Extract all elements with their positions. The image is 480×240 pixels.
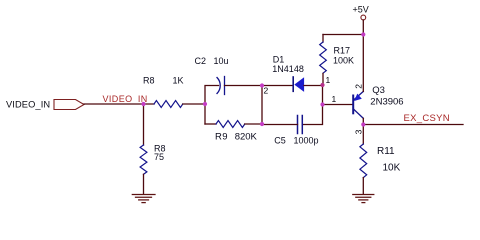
- wire loop left vertical: [205, 86, 219, 105]
- wire R11 to ground: [362, 178, 364, 194]
- ground (under R8 75): [132, 195, 155, 203]
- resistor R17 100K: [320, 35, 354, 86]
- svg-text:C2: C2: [195, 56, 207, 66]
- svg-text:VIDEO_IN: VIDEO_IN: [6, 100, 50, 110]
- wire +5V down: [362, 20, 364, 35]
- wire port to R8: [84, 103, 154, 105]
- svg-text:10K: 10K: [383, 162, 401, 173]
- svg-text:Q3: Q3: [372, 85, 385, 96]
- svg-text:R9: R9: [215, 132, 228, 143]
- wire +5V to R17: [323, 34, 363, 36]
- svg-text:1: 1: [326, 75, 331, 85]
- svg-text:C5: C5: [274, 135, 286, 145]
- capacitor C2 10u: [195, 56, 229, 95]
- svg-text:2: 2: [264, 86, 269, 96]
- svg-text:R17: R17: [334, 46, 351, 56]
- resistor R8 75: [140, 144, 165, 175]
- wire split node down to R9 branch: [204, 104, 206, 124]
- svg-text:EX_CSYN: EX_CSYN: [404, 113, 450, 124]
- wire to D1: [262, 85, 293, 87]
- capacitor C5 1000p: [274, 116, 318, 146]
- svg-text:2N3906: 2N3906: [370, 96, 403, 107]
- wire EX_CSYN out: [363, 124, 463, 126]
- svg-text:1000p: 1000p: [294, 135, 319, 145]
- junction node VIDEO_IN: [141, 102, 145, 106]
- junction loop top right: [260, 83, 264, 87]
- wire R8(75) to ground: [143, 174, 145, 194]
- svg-text:1N4148: 1N4148: [272, 64, 304, 74]
- svg-text:2: 2: [354, 84, 364, 89]
- resistor R9 820K: [215, 121, 258, 143]
- wire base: [323, 104, 353, 106]
- svg-text:10u: 10u: [214, 56, 229, 66]
- wire C2 to right vertical: [225, 85, 263, 87]
- svg-text:3: 3: [354, 129, 364, 134]
- wire C5 to loop: [262, 124, 298, 126]
- junction D1/R17: [320, 83, 324, 87]
- svg-text:VIDEO_IN: VIDEO_IN: [103, 94, 148, 104]
- diode D1 1N4148: [272, 55, 304, 92]
- svg-text:R8: R8: [143, 76, 155, 86]
- svg-text:1: 1: [332, 94, 337, 104]
- wire to R9: [205, 123, 216, 125]
- ground (under R11): [353, 195, 374, 203]
- transistor Q3 2N3906: [353, 85, 403, 118]
- svg-text:75: 75: [154, 152, 164, 162]
- junction loop bottom right: [260, 122, 264, 126]
- svg-text:+5V: +5V: [353, 5, 369, 15]
- junction dots (drawn on top): [141, 32, 365, 126]
- resistor R11 10K: [360, 144, 401, 178]
- resistor R8 1K: [143, 76, 184, 108]
- wire collector down: [362, 118, 364, 124]
- wire collector to R11: [362, 125, 364, 145]
- wire down to R8(75): [143, 104, 145, 145]
- port VIDEO_IN: [6, 100, 84, 110]
- wire D1 to node: [304, 85, 323, 87]
- svg-text:D1: D1: [273, 55, 285, 65]
- wire R8 to split node: [183, 103, 205, 105]
- svg-text:1K: 1K: [173, 76, 184, 86]
- wire node down to base tee: [322, 85, 324, 105]
- junction +5V tee: [361, 32, 365, 36]
- wire emitter up: [362, 35, 364, 92]
- junction base tee: [320, 102, 324, 106]
- wire R9 to right vertical: [245, 123, 262, 125]
- svg-text:820K: 820K: [235, 132, 258, 143]
- wire loop right vertical: [261, 86, 263, 125]
- svg-text:100K: 100K: [333, 56, 354, 66]
- svg-text:R11: R11: [377, 146, 395, 157]
- wire down to C5: [303, 105, 323, 125]
- junction collector node: [361, 122, 365, 126]
- junction split node: [203, 102, 207, 106]
- power +5V: [353, 5, 369, 20]
